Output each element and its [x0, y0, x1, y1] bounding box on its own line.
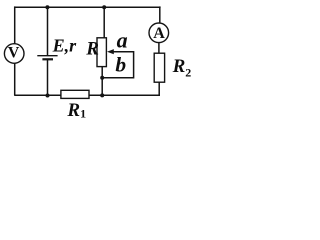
wire bottom right segment (R1 to right branch) — [89, 94, 160, 96]
svg-text:R2: R2 — [172, 56, 192, 80]
wire left lower (voltmeter down to bottom wire) — [14, 63, 16, 95]
rheostat R body — [97, 38, 106, 67]
svg-text:A: A — [153, 25, 165, 42]
junction node (battery branch / bottom wire) — [46, 94, 50, 98]
resistor R2 — [154, 53, 164, 82]
junction node (top wire / rheostat branch) — [102, 5, 106, 9]
resistor R1 — [61, 90, 89, 98]
wire left upper (top wire down to voltmeter) — [14, 6, 16, 44]
junction node (top wire / battery branch) — [45, 5, 49, 9]
wiper wire (right then down then left to rheostat branch) — [102, 52, 133, 78]
wire R2 to bottom wire — [158, 82, 160, 96]
battery E,r long plate — [37, 55, 57, 57]
svg-text:E,r: E,r — [52, 36, 78, 56]
svg-text:R1: R1 — [66, 100, 86, 119]
junction node (rheostat branch / bottom wire) — [100, 93, 104, 97]
wire ammeter to R2 — [158, 42, 160, 53]
battery branch wire upper (top wire to battery) — [47, 7, 49, 55]
svg-text:V: V — [8, 44, 20, 61]
svg-text:R: R — [85, 39, 99, 60]
voltmeter V — [4, 44, 24, 64]
wiper arrow head (points left at rheostat) — [107, 49, 114, 54]
junction node (rheostat lower wire / wiper return) — [100, 76, 104, 80]
rheostat branch wire upper (top wire to rheostat) — [103, 7, 105, 38]
ammeter A — [149, 23, 169, 43]
wire right upper (top wire down to ammeter) — [159, 6, 161, 23]
wire top (from left branch to right branch) — [15, 6, 161, 8]
svg-text:b: b — [115, 53, 126, 77]
battery E,r short plate — [42, 58, 53, 60]
battery branch wire lower (battery to bottom wire) — [47, 60, 49, 96]
svg-text:a: a — [117, 28, 128, 53]
rheostat branch wire lower (rheostat to bottom wire) — [101, 67, 103, 96]
wire bottom left segment (to resistor R1) — [14, 94, 61, 96]
